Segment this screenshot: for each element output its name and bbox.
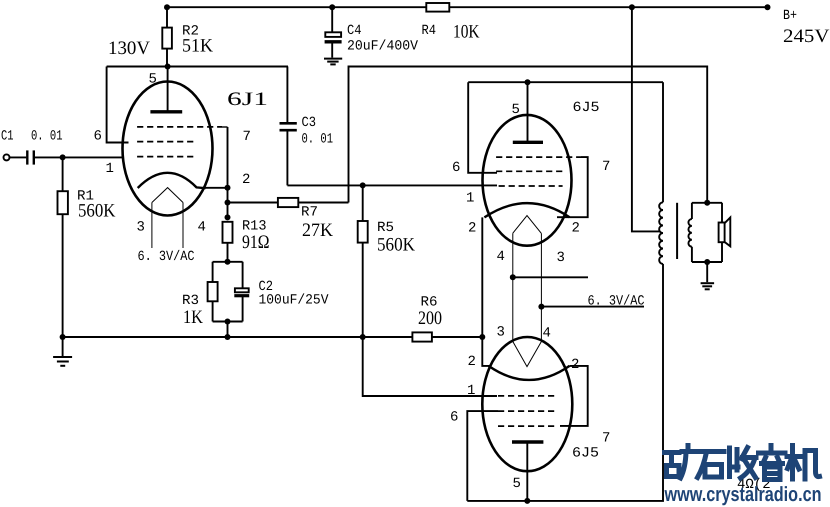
wire: R7 left lead [228, 202, 278, 204]
svg-text:27K: 27K [302, 220, 333, 241]
wire: secondary loop right legs [721, 203, 723, 262]
svg-text:6J1: 6J1 [227, 89, 268, 110]
wire: lower 6J5 pin 6 box [467, 411, 498, 501]
wire: lower 6J5 pin 7 box [560, 366, 588, 426]
wire: lower 6J5 pin 5 lead [526, 442, 528, 501]
node: R7 junction [225, 200, 231, 206]
svg-text:2: 2 [571, 357, 579, 373]
svg-text:1: 1 [467, 383, 475, 399]
svg-text:2: 2 [242, 172, 250, 188]
svg-text:2: 2 [572, 221, 580, 237]
svg-text:3: 3 [557, 250, 565, 266]
node: R3/C2 top junction [225, 259, 231, 265]
wire: 6J1 pin 5 lead to plate [167, 67, 169, 112]
node: C4 top junction [329, 4, 335, 10]
svg-text:91Ω: 91Ω [242, 232, 270, 253]
wire: upper 6J5 cathode drop to R6 node [482, 217, 490, 366]
transformer T1 core [676, 203, 678, 259]
logo char shi [697, 452, 725, 478]
svg-text:100uF/25V: 100uF/25V [259, 293, 330, 309]
tube U2 6J5 upper envelope [483, 115, 572, 246]
node: B+ terminal [765, 4, 771, 10]
resistor R3 [208, 282, 218, 301]
tube U1 6J1 envelope [123, 82, 213, 216]
wire: R5 top lead [362, 185, 364, 221]
wire: R1 top lead [62, 157, 64, 191]
wire: cathode network to ground rail [227, 322, 229, 338]
node: ground rail junction below R3 [225, 334, 231, 340]
6J1 plate bar [150, 110, 182, 113]
svg-text:4: 4 [497, 249, 505, 265]
6J1 cathode arc [138, 173, 206, 188]
node: speaker bottom junction [704, 259, 710, 265]
wire: 6J5 upper box top rail [468, 81, 663, 83]
node: R2 top junction [164, 4, 170, 10]
svg-text:560K: 560K [377, 235, 415, 256]
ground: speaker ground symbol [701, 282, 715, 284]
wire: bottom rail to transformer primary bottom [467, 264, 663, 501]
node: cathode junction [225, 185, 231, 191]
wire: R7 right lead to riser [298, 202, 348, 204]
wire: R3/C2 parallel bottom bar [213, 321, 243, 323]
transformer T1 primary winding [659, 202, 663, 264]
capacitor C3 plates [280, 123, 297, 130]
terminal: signal input [4, 154, 10, 160]
svg-text:5: 5 [149, 72, 157, 88]
wire: input terminal to C1 [9, 156, 26, 158]
resistor R2 [162, 28, 172, 49]
node: 6J5 upper pin5 junction [525, 79, 531, 85]
transformer T1 secondary winding [688, 219, 691, 247]
wire: B+ feed to primary tap [632, 7, 660, 231]
wire: secondary loop left legs [691, 203, 693, 262]
wire: R5 bottom lead [362, 243, 364, 337]
6J5 lower cathode arc (inverted) [489, 366, 570, 380]
svg-text:B+: B+ [783, 8, 797, 24]
wire: coupling line C3 to 6J5 pin 1 [287, 184, 497, 186]
wire: filament bus left (pin4 upper to pin3 lower) [512, 233, 514, 341]
resistor R13 [223, 222, 233, 243]
wire: speaker ground stem [706, 262, 708, 282]
wire: heater stub upper to 6.3V/AC [513, 276, 588, 278]
node: R13 top junction [225, 214, 231, 220]
wire: feedback line from R7 riser to speaker top [349, 67, 708, 203]
resistor R6 [412, 332, 432, 341]
svg-text:200: 200 [418, 308, 442, 329]
logo char ji [787, 446, 820, 480]
6J1 grid g1 dashed [137, 156, 195, 158]
capacitor C1 plate right [33, 150, 35, 164]
wire: 6J1 box left side down to pin 6 [107, 67, 129, 143]
svg-text:0. 01: 0. 01 [31, 129, 63, 145]
svg-text:51K: 51K [182, 36, 213, 57]
svg-text:0. 01: 0. 01 [302, 132, 334, 148]
svg-text:130V: 130V [108, 38, 150, 59]
6J5 upper grid dashed rows [496, 156, 581, 158]
wire: filament bus right [540, 233, 542, 341]
svg-text:R7: R7 [301, 205, 318, 221]
wire: upper 6J5 pin 7 box [557, 157, 588, 217]
watermark logo: crystalradio [665, 446, 820, 480]
capacitor C4 positive plate [325, 32, 341, 37]
wire: 6J1 pin7/pin2 vertical [227, 127, 229, 217]
node: speaker top junction [704, 200, 710, 206]
logo char shou [730, 448, 757, 479]
6J1 filament tent [152, 188, 183, 203]
wire: R3/C2 parallel top bar [213, 261, 243, 263]
svg-text:5: 5 [513, 476, 521, 492]
node: parallel bottom junction [225, 319, 231, 325]
svg-text:6J5: 6J5 [573, 100, 600, 116]
node: pin 5 junction on box top [165, 64, 171, 70]
svg-text:www.crystalradio.cn: www.crystalradio.cn [664, 483, 822, 506]
svg-text:1: 1 [466, 191, 474, 207]
resistor R4 [426, 3, 449, 12]
svg-text:1K: 1K [183, 307, 203, 328]
wire: secondary loop bottom [692, 261, 722, 263]
svg-text:C3: C3 [302, 115, 317, 131]
6J5 upper cathode arc [484, 203, 569, 217]
node: R5 bottom / ground rail junction [360, 334, 366, 340]
wire: C3 bottom lead [286, 132, 288, 186]
svg-text:6. 3V/AC: 6. 3V/AC [138, 249, 195, 265]
wire: R1 bottom lead to ground rail [62, 214, 64, 337]
resistor R7 [278, 198, 298, 207]
svg-text:4: 4 [198, 220, 206, 236]
wire: R13 bottom lead [227, 243, 229, 262]
svg-text:R4: R4 [422, 23, 437, 39]
svg-text:560K: 560K [78, 201, 116, 222]
wire: C4 lead to ground [331, 44, 333, 58]
svg-text:3: 3 [137, 220, 145, 236]
svg-text:20uF/400V: 20uF/400V [347, 39, 419, 55]
wire: C2 branch [242, 262, 244, 322]
svg-text:2: 2 [468, 221, 476, 237]
wire: secondary loop top [692, 202, 722, 204]
node: R5 top junction [360, 182, 366, 188]
wire: B+ top rail right segment (R4 to B+ terminal) [449, 6, 767, 8]
wire: B+ top rail left segment (R2 top to R4) [167, 6, 426, 8]
wire: lower 6J5 grid feed [363, 337, 497, 396]
6J5 lower filament tent (inverted) [513, 342, 542, 367]
6J5 lower grid dashed rows [498, 395, 556, 397]
wire: R3 branch [212, 262, 214, 322]
svg-text:6: 6 [94, 129, 102, 145]
wire: 6J1 cathode to pin 2 node [205, 187, 228, 189]
wire: heater stub lower to 6.3V/AC [541, 306, 644, 308]
svg-text:3: 3 [497, 325, 505, 341]
svg-text:2: 2 [468, 354, 476, 370]
svg-text:7: 7 [602, 159, 610, 175]
svg-text:6: 6 [452, 160, 460, 176]
wire: R2 leads [166, 7, 168, 66]
capacitor C1 plate left [26, 150, 28, 164]
6J1 grid g2 dashed [137, 141, 195, 143]
wire: 6J1 grid box top (pin5 rail) [107, 66, 288, 68]
svg-text:7: 7 [602, 431, 610, 447]
node: pin5 lower junction [524, 498, 530, 504]
logo char yin [759, 446, 786, 480]
node: ground rail left junction [60, 334, 66, 340]
svg-text:C4: C4 [347, 23, 362, 39]
wire: C4 top lead [331, 7, 333, 32]
svg-text:10K: 10K [453, 22, 480, 43]
svg-text:5: 5 [512, 102, 520, 118]
svg-text:6. 3V/AC: 6. 3V/AC [588, 294, 645, 310]
node: heater tap upper [510, 274, 516, 280]
resistor R5 [358, 221, 368, 243]
6J5 lower plate bar [512, 440, 543, 443]
ground: C4 ground symbol [324, 58, 342, 60]
capacitor C4 negative plate [325, 40, 342, 43]
6J1 grid g3 dashed (to pin 7) [137, 126, 222, 128]
wire: C3 top lead from box [286, 67, 288, 123]
node: transformer tap feed junction [629, 4, 635, 10]
6J5 upper filament tent [513, 216, 541, 234]
wire: main ground rail [63, 336, 483, 338]
wire: transformer primary top lead from upper box [662, 82, 664, 202]
node: heater tap lower [538, 304, 544, 310]
resistor R1 [58, 191, 68, 214]
wire: 6J1 heater lead pin 4 [182, 203, 184, 249]
wire: upper 6J5 pin 5 lead [527, 82, 529, 142]
tube U3 6J5 lower envelope [482, 337, 572, 471]
speaker LS1 horn [725, 217, 731, 246]
ground: main ground symbol [53, 356, 72, 358]
svg-text:7: 7 [243, 129, 251, 145]
capacitor C2 negative plate [234, 294, 249, 297]
svg-text:6J5: 6J5 [572, 446, 599, 462]
node: R1 top junction [60, 154, 66, 160]
svg-text:6: 6 [450, 410, 458, 426]
node: R6 right junction at tube1 cathode line [479, 334, 485, 340]
wire: 6J1 heater lead pin 3 [151, 203, 153, 249]
logo char kuang [665, 446, 695, 479]
wire: upper 6J5 pin 6 box left [468, 82, 497, 173]
capacitor C2 positive plate [235, 288, 249, 292]
svg-text:4: 4 [543, 326, 551, 342]
svg-text:C1: C1 [1, 129, 14, 145]
6J5 upper plate bar [513, 141, 543, 144]
svg-text:245V: 245V [783, 26, 830, 47]
wire: C1 to 6J1 pin 1 [35, 156, 124, 158]
speaker LS1 body [719, 223, 725, 243]
wire: ground stem far left [62, 337, 64, 356]
svg-text:1: 1 [106, 161, 114, 177]
